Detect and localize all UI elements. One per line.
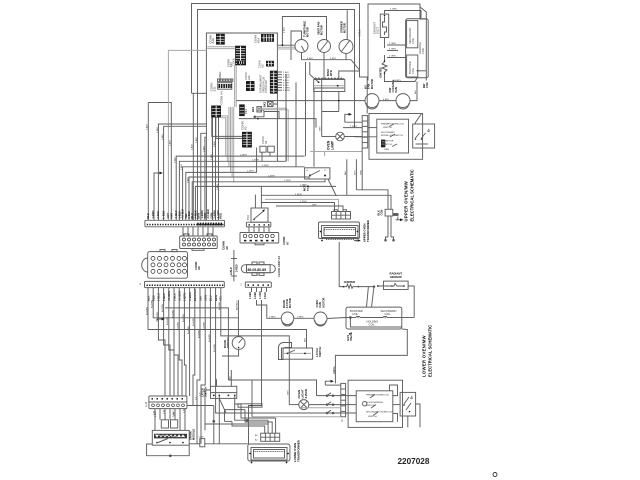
- lower xfmr connector: [255, 433, 280, 441]
- lower interlock inner: [356, 391, 393, 422]
- hv wire y190: [356, 190, 388, 210]
- conn E11 strip: [218, 83, 232, 90]
- svg-text:A1-BRN: A1-BRN: [156, 312, 159, 320]
- svg-text:A1-BRN: A1-BRN: [182, 314, 185, 322]
- svg-text:IGNITER: IGNITER: [344, 280, 355, 284]
- page arrow 2: [157, 318, 165, 322]
- svg-text:MOTOR: MOTOR: [343, 23, 347, 33]
- svg-text:WHT: WHT: [170, 212, 174, 218]
- svg-text:B+: B+: [427, 128, 431, 132]
- mid stub connector: [230, 250, 239, 281]
- J1 connector: [341, 383, 346, 416]
- svg-text:SWITCH: SWITCH: [368, 416, 377, 418]
- mag fan motor: [396, 94, 410, 109]
- svg-text:2 ORN: 2 ORN: [389, 49, 396, 51]
- spark loop wire: [147, 444, 190, 457]
- svg-text:A1-BRN: A1-BRN: [177, 322, 180, 330]
- board bottom wire: [239, 119, 316, 128]
- svg-text:2 WHT: 2 WHT: [300, 201, 307, 203]
- stub riser v314: [313, 88, 315, 167]
- holding loop: [350, 318, 401, 328]
- lower interlock outer: [348, 380, 402, 427]
- conn A14 block: [261, 34, 274, 42]
- svg-text:MOTOR: MOTOR: [288, 298, 292, 308]
- svg-text:A8: A8: [197, 266, 201, 270]
- inner switches: [370, 395, 378, 416]
- shallow switch box: [238, 404, 262, 407]
- grey wire 2: [277, 48, 296, 50]
- svg-text:COIL: COIL: [369, 323, 376, 327]
- conn A12 block: [246, 81, 255, 91]
- svg-text:A1-BRN: A1-BRN: [208, 334, 211, 342]
- interlock drop 1: [347, 148, 362, 195]
- lamp wires: [322, 136, 336, 138]
- wire L1 outer frame top: [192, 4, 368, 114]
- grey chassis drop: [324, 152, 326, 157]
- wire stirrer feed: [346, 10, 348, 39]
- conn A17 block: [266, 61, 274, 67]
- svg-text:1-WHT: 1-WHT: [268, 175, 276, 177]
- descender b6: [201, 133, 207, 220]
- svg-text:1-RED: 1-RED: [249, 292, 252, 299]
- svg-text:A7: A7: [285, 241, 289, 245]
- conn BK1 block: [239, 104, 245, 116]
- svg-text:E11: E11: [213, 86, 217, 91]
- small strip A16: [241, 282, 272, 287]
- svg-text:2-BRN: 2-BRN: [304, 388, 308, 398]
- latch box entry 2: [230, 370, 232, 386]
- frame drop continue: [192, 93, 194, 220]
- svg-text:1-RED: 1-RED: [269, 317, 276, 319]
- svg-text:CON: CON: [426, 82, 429, 88]
- svg-text:2-BLK: 2-BLK: [170, 139, 172, 146]
- valve out dot: [417, 70, 419, 72]
- terminal strip P2: [145, 281, 225, 287]
- mid horizontal h3: [183, 167, 305, 221]
- dot below valve: [349, 333, 351, 335]
- blk con drop: [388, 216, 391, 237]
- door switch drop: [222, 349, 239, 356]
- svg-text:BK1: BK1: [251, 106, 255, 112]
- page marker circle: [493, 473, 497, 477]
- mid horizontal h1: [176, 156, 304, 220]
- valve exit: [402, 317, 414, 319]
- igniter to valve wires: [359, 286, 375, 307]
- upper transformer: [319, 222, 361, 242]
- svg-text:SWITCH: SWITCH: [383, 127, 392, 129]
- svg-text:GRY: GRY: [166, 213, 170, 219]
- spark out wire: [189, 443, 200, 445]
- conn P3: [240, 233, 279, 245]
- interlock switches: [389, 124, 397, 147]
- svg-text:4 BLK: 4 BLK: [307, 58, 313, 60]
- door switch feed: [237, 300, 239, 337]
- latch to conv wire: [294, 317, 314, 319]
- small box K1: [257, 107, 262, 112]
- M1 shaft: [302, 46, 305, 52]
- svg-text:A1-BRN: A1-BRN: [151, 300, 154, 308]
- cross wire y335: [221, 330, 251, 336]
- latch box entry 1: [215, 378, 218, 386]
- valve stub labels: [389, 43, 396, 58]
- grey riser pair from A14: [234, 66, 236, 108]
- svg-text:A12: A12: [247, 75, 251, 80]
- cavity tc box: [380, 14, 388, 37]
- hv fan motor: [365, 94, 379, 109]
- svg-text:1-WHT: 1-WHT: [262, 165, 270, 167]
- svg-text:A6: A6: [225, 246, 229, 250]
- svg-text:1-WHT: 1-WHT: [284, 180, 292, 182]
- strip3 left wire: [187, 405, 214, 407]
- thermostat riser2: [254, 195, 256, 208]
- stub riser v286: [285, 75, 287, 162]
- svg-text:TRANSFORMER: TRANSFORMER: [366, 220, 370, 242]
- M2 slash: [320, 41, 328, 51]
- ground arrow lower: [325, 380, 341, 385]
- dashed sense wire: [343, 127, 362, 129]
- svg-text:SWITCH: SWITCH: [318, 347, 322, 357]
- radiant sensor box: [377, 281, 408, 289]
- door latch motor: [281, 312, 294, 326]
- latch motor feed: [257, 300, 282, 318]
- svg-text:TOD: TOD: [247, 215, 250, 220]
- conn A16 block: [237, 61, 246, 65]
- svg-text:A1-BRN: A1-BRN: [145, 307, 148, 315]
- svg-text:COIL: COIL: [411, 67, 415, 74]
- wire L1 frame into board: [192, 92, 207, 94]
- svg-text:GRD: GRD: [393, 214, 399, 217]
- heater mid drop: [321, 80, 323, 112]
- conn A6 stub wires: [183, 227, 213, 236]
- grey pair into grid b: [207, 48, 235, 50]
- svg-text:ELECTRICAL SCHEMATIC: ELECTRICAL SCHEMATIC: [410, 169, 415, 221]
- svg-text:GRY: GRY: [288, 390, 290, 395]
- inline fuse box: [199, 437, 205, 447]
- mid horizontal h2: [179, 161, 286, 220]
- svg-text:BK1: BK1: [244, 109, 248, 114]
- top loop wire: [228, 380, 316, 396]
- grey wire pair to motor: [277, 46, 295, 48]
- turntable motor M1: [295, 40, 308, 53]
- bake burner wire corner: [225, 410, 246, 422]
- svg-text:COIL: COIL: [411, 37, 415, 44]
- monitor diagonal wire: [415, 114, 422, 125]
- conn A2 grid: [242, 132, 252, 148]
- svg-text:COIL: COIL: [385, 312, 392, 316]
- svg-text:YEL: YEL: [218, 295, 222, 301]
- svg-text:MOTOR: MOTOR: [370, 79, 374, 89]
- grey row 2: [300, 407, 341, 409]
- hv circuit feed wire: [236, 100, 365, 102]
- svg-text:4 BLK: 4 BLK: [284, 27, 286, 33]
- row3 hook: [326, 410, 334, 414]
- svg-text:BLK/OR: BLK/OR: [334, 366, 336, 374]
- keyboard connector: [142, 250, 188, 279]
- mid horizontal h7: [195, 186, 336, 220]
- igniter lower: [343, 284, 360, 288]
- P2 descenders: [148, 288, 238, 444]
- svg-text:2-BLK: 2-BLK: [156, 211, 160, 219]
- svg-text:1-WHT: 1-WHT: [247, 171, 255, 173]
- svg-text:RED: RED: [219, 213, 223, 219]
- svg-text:2207028: 2207028: [398, 457, 430, 466]
- door switch lower: [232, 337, 245, 350]
- conn A13 center grid: [235, 46, 246, 66]
- valve out link: [418, 70, 427, 72]
- svg-text:GRY: GRY: [320, 126, 322, 131]
- upper gas box outline: [368, 4, 426, 81]
- lamp riser: [321, 112, 323, 137]
- igniter upper: [382, 55, 387, 77]
- svg-text:2-BLK: 2-BLK: [147, 123, 149, 130]
- descender b5: [197, 101, 199, 220]
- row2 wire continue: [309, 404, 356, 406]
- svg-text:A1-BRN: A1-BRN: [213, 344, 216, 352]
- junction dot: [257, 118, 259, 120]
- oven thermostat: [251, 208, 268, 222]
- vent fan drop: [323, 60, 325, 80]
- wire y206: [276, 206, 343, 212]
- conn A4 drop 2: [215, 118, 217, 221]
- svg-text:BLK: BLK: [230, 375, 232, 380]
- valve stub wires: [387, 45, 406, 58]
- tc feed wire: [385, 11, 422, 19]
- svg-text:ELECTRICAL SCHEMATIC: ELECTRICAL SCHEMATIC: [428, 325, 433, 377]
- svg-text:MODULE: MODULE: [192, 428, 196, 440]
- svg-text:A-18: A-18: [145, 401, 148, 407]
- svg-text:GRN: GRN: [360, 170, 362, 175]
- A16 drop wires: [252, 287, 267, 292]
- svg-text:2 WHT: 2 WHT: [350, 126, 357, 128]
- svg-text:2-BLK: 2-BLK: [211, 153, 213, 160]
- svg-text:2-Y: 2-Y: [203, 388, 205, 392]
- wire y196: [261, 195, 391, 209]
- lower right switch box: [400, 392, 416, 416]
- tc bottom wire: [384, 38, 386, 49]
- conn A6 connector: [180, 234, 218, 250]
- conn A4 block: [211, 106, 221, 118]
- oven light lower: [299, 400, 309, 410]
- svg-text:1-ORN: 1-ORN: [259, 291, 262, 299]
- svg-text:4 BLK: 4 BLK: [383, 99, 389, 101]
- svg-text:A2: A2: [244, 126, 248, 130]
- grey riser 2: [235, 66, 237, 108]
- svg-text:4 ORN: 4 ORN: [390, 9, 397, 11]
- svg-text:COIL: COIL: [352, 312, 359, 316]
- lower valve outer: [346, 307, 402, 329]
- hv feed left segment: [148, 103, 171, 221]
- svg-text:GRY: GRY: [312, 204, 317, 206]
- interlock internal wires: [390, 385, 421, 427]
- descender b7: [205, 137, 207, 220]
- secondary coil box: [407, 21, 418, 48]
- row1 wire: [317, 395, 357, 397]
- svg-text:2-BLK: 2-BLK: [264, 292, 267, 299]
- igniter drop wire: [339, 242, 343, 287]
- stirrer motor M3: [339, 40, 353, 54]
- latch block exits: [214, 395, 241, 443]
- svg-text:2-BLK: 2-BLK: [157, 126, 159, 133]
- latch switch block: [211, 386, 237, 398]
- svg-text:2-RED: 2-RED: [254, 292, 257, 299]
- svg-text:A1-BRN: A1-BRN: [218, 302, 221, 310]
- svg-text:A1-BRN: A1-BRN: [171, 310, 174, 318]
- P4 lower wires: [155, 409, 185, 431]
- conn E11 pin row: [218, 79, 233, 81]
- mid horizontal h4: [186, 148, 257, 221]
- svg-text:MOTOR: MOTOR: [321, 297, 325, 307]
- heater feed diagonal: [306, 62, 319, 156]
- svg-text:A14: A14: [256, 38, 260, 43]
- oven lamp upper: [336, 132, 345, 141]
- junction dot A: [282, 44, 284, 46]
- svg-text:CONN A15: CONN A15: [264, 80, 268, 93]
- stirrer step wire: [339, 70, 360, 80]
- svg-text:1-WHT: 1-WHT: [300, 185, 308, 187]
- wire tick labels: [145, 123, 307, 416]
- svg-text:LAMP: LAMP: [331, 140, 335, 150]
- svg-text:4 BRN: 4 BRN: [295, 194, 302, 196]
- upper valve outer: [406, 19, 429, 78]
- svg-text:COIL: COIL: [421, 47, 425, 54]
- lamp feed wire: [322, 111, 339, 113]
- door sensing box: [413, 124, 435, 148]
- relay blocks: [161, 420, 168, 428]
- out wire continue: [205, 443, 248, 445]
- upper xfmr connector: [332, 210, 351, 219]
- svg-text:A1-BRN: A1-BRN: [203, 322, 206, 330]
- svg-text:BLK: BLK: [305, 337, 307, 342]
- conv to valve wire: [327, 318, 346, 319]
- interlock outer box: [369, 114, 423, 160]
- valve bottom exit: [335, 329, 407, 383]
- terminal strip P1: [145, 220, 225, 227]
- top loop left: [251, 380, 253, 417]
- K boxes link wires: [254, 104, 280, 119]
- wires board to turntable motor: [277, 44, 295, 46]
- inner rows text: [366, 394, 393, 419]
- svg-text:MOTOR: MOTOR: [320, 25, 324, 35]
- wire L2 inner frame: [198, 10, 355, 129]
- interlock rows text: [381, 123, 405, 152]
- svg-text:CONN: CONN: [232, 58, 236, 66]
- staircase wire 2: [212, 118, 242, 137]
- conn A1A block: [216, 34, 225, 45]
- M3 slash: [341, 40, 350, 52]
- valve through wire: [346, 316, 402, 318]
- motor bottom bus: [302, 53, 360, 71]
- svg-text:2-BLK: 2-BLK: [162, 133, 164, 140]
- wire vent fan feed: [282, 17, 326, 46]
- svg-text:2-BLK: 2-BLK: [214, 140, 216, 147]
- svg-text:BLK: BLK: [345, 170, 347, 175]
- grey bundle right: [256, 108, 288, 161]
- svg-text:2 ORN: 2 ORN: [389, 43, 396, 45]
- conn A4 drop 3: [218, 118, 220, 221]
- page arrow mid: [345, 113, 362, 122]
- svg-text:A1-BRN: A1-BRN: [187, 326, 190, 334]
- svg-text:4A BRN: 4A BRN: [393, 79, 401, 82]
- xfmr riser wires: [205, 404, 276, 433]
- a16 long drop: [249, 300, 262, 444]
- svg-text:CONN A4: CONN A4: [220, 91, 224, 105]
- grey row: [252, 416, 341, 418]
- grey wire y199: [265, 199, 339, 211]
- svg-text:CON: CON: [380, 210, 384, 216]
- svg-text:BLU: BLU: [415, 89, 417, 94]
- row1 hook: [326, 393, 334, 397]
- control board box: [206, 33, 277, 220]
- upper valve bottom wire: [385, 77, 418, 82]
- svg-text:BLK: BLK: [146, 213, 150, 219]
- svg-text:BK2: BK2: [263, 101, 267, 107]
- grey feeder bundle going right: [221, 107, 234, 182]
- grey chassis wire: [168, 50, 206, 220]
- conn A4 drop 1: [212, 118, 214, 221]
- gry riser: [251, 336, 290, 405]
- interlock feed wires: [368, 127, 377, 129]
- svg-text:WHT: WHT: [355, 169, 357, 175]
- door sensing switches: [415, 133, 428, 144]
- svg-text:CON: CON: [199, 437, 204, 439]
- svg-text:SECONDARY INTERLOCK: SECONDARY INTERLOCK: [366, 411, 393, 414]
- svg-text:89-05-80-85: 89-05-80-85: [248, 268, 267, 272]
- svg-text:DOOR SENSING: DOOR SENSING: [366, 402, 383, 404]
- svg-text:2-RED: 2-RED: [235, 264, 238, 272]
- svg-text:A1-BRN: A1-BRN: [197, 330, 200, 338]
- arrow page ref: [154, 172, 163, 221]
- wire y420: [213, 404, 268, 422]
- vent fan motor M2: [318, 40, 331, 53]
- heater bus tap: [338, 100, 340, 102]
- svg-text:A17: A17: [261, 63, 265, 68]
- wire turntable feed: [291, 31, 302, 60]
- svg-text:2-BLK: 2-BLK: [217, 183, 219, 190]
- P2 wire labels below: [146, 288, 222, 301]
- fan link wire: [379, 100, 396, 102]
- P4 wire labels: [155, 409, 175, 417]
- svg-text:2 BLK: 2 BLK: [359, 29, 362, 36]
- svg-text:LOWER OVEN/MW: LOWER OVEN/MW: [422, 335, 427, 377]
- J2 connector strip: [362, 116, 368, 148]
- P1 wire labels: [146, 209, 223, 219]
- row2 wire lamp: [289, 404, 298, 406]
- svg-text:MOTOR: MOTOR: [306, 27, 310, 37]
- terminal strip P4: [149, 396, 187, 409]
- interlock inner box: [377, 119, 409, 153]
- svg-text:L-BLK: L-BLK: [161, 210, 165, 218]
- conn A15 pin stubs: [278, 72, 283, 90]
- interlock conn block: [381, 140, 385, 148]
- svg-text:1-RED: 1-RED: [151, 210, 155, 218]
- jog wire 307: [165, 308, 228, 380]
- long cross wire y329: [148, 330, 307, 349]
- svg-text:2-BLK: 2-BLK: [196, 136, 198, 143]
- heater drop wire: [338, 92, 340, 112]
- svg-text:2-Y: 2-Y: [199, 392, 201, 396]
- latch switch assy: [282, 348, 313, 359]
- svg-text:BLK/WHT: BLK/WHT: [237, 300, 239, 310]
- svg-text:A1-BRN: A1-BRN: [192, 318, 195, 326]
- radiant right wire: [408, 286, 414, 318]
- svg-text:2-BLK: 2-BLK: [181, 163, 183, 170]
- svg-text:A-BLK: A-BLK: [230, 267, 233, 275]
- svg-text:IGNITER: IGNITER: [378, 67, 382, 78]
- svg-text:DUCT: DUCT: [375, 26, 379, 34]
- descender b2: [164, 126, 207, 220]
- mini strip: [246, 222, 270, 227]
- TOD box: [305, 168, 330, 179]
